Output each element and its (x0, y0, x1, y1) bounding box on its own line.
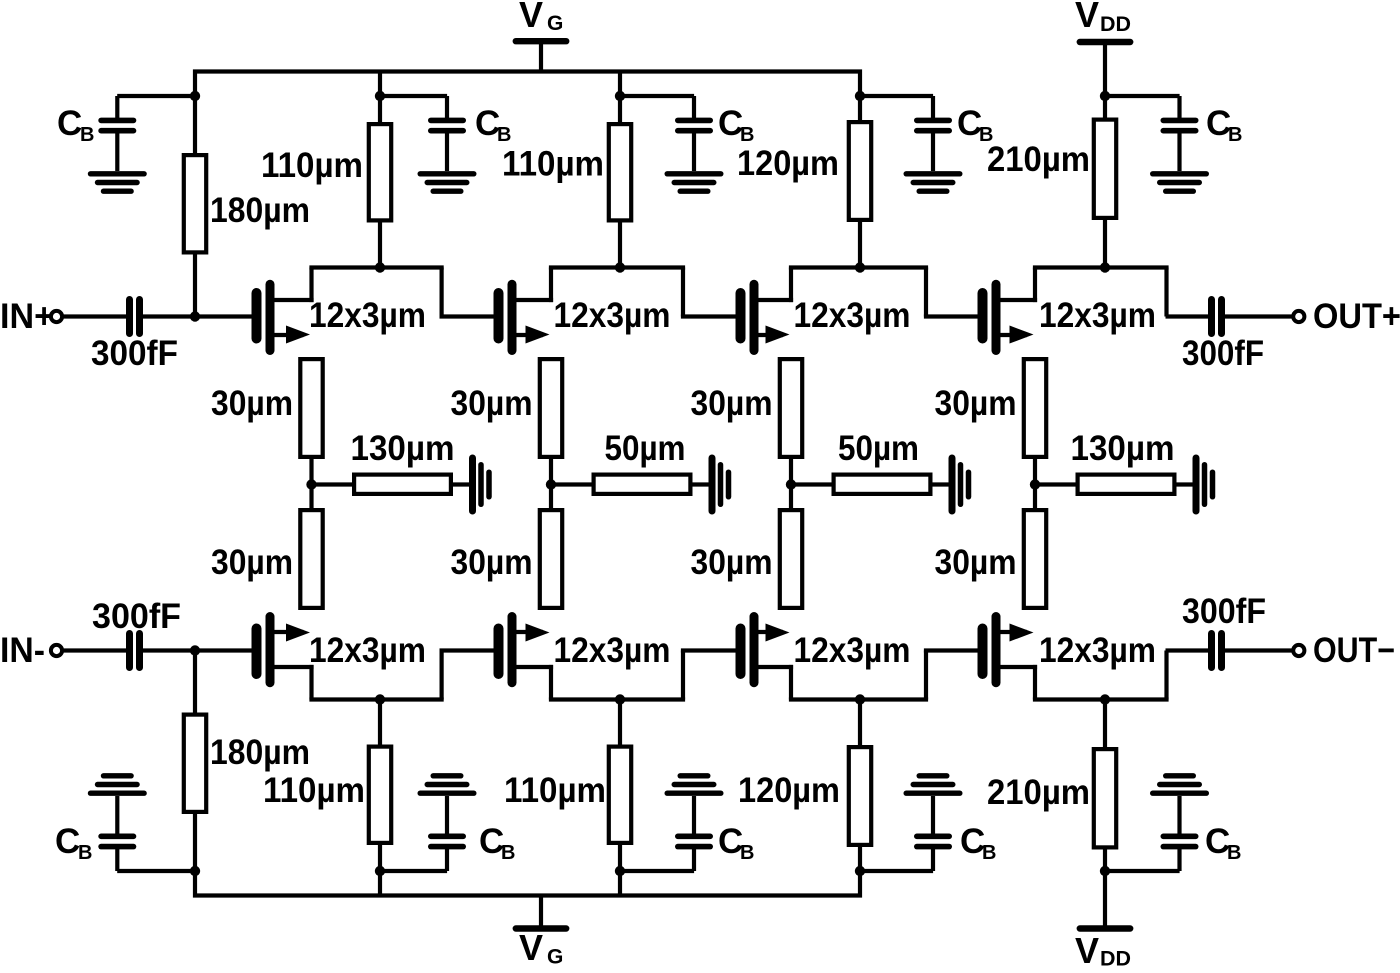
ground CB10 bottom (1153, 776, 1207, 793)
terminal OUT- (1293, 645, 1304, 656)
wire stage1 to M2 gate (440, 314, 494, 318)
wire stage2 to M7 gate (681, 648, 736, 652)
svg-text:B: B (1228, 124, 1242, 146)
wire node to M1 gate (195, 314, 252, 318)
resistor RG1 top 180µm (184, 155, 206, 252)
node IN- bias (190, 645, 200, 655)
ground CB8 bottom (667, 776, 721, 793)
wire RS4a to node (1033, 458, 1037, 509)
label RG1 top 180um (210, 191, 310, 230)
wire C3 to node (143, 648, 195, 652)
wire col2 bottom resistor to drain bus (378, 700, 382, 746)
label RG3 top 110um (502, 145, 604, 184)
wire M1 drain up (309, 268, 313, 303)
svg-text:B: B (1227, 842, 1241, 864)
wire col5 bottom resistor to drain bus (1103, 700, 1107, 749)
wire mid node to RM3 (791, 482, 832, 486)
svg-text:30µm: 30µm (691, 384, 773, 423)
resistor RG2 top 110µm (369, 124, 391, 220)
capacitor C3 300fF (130, 634, 140, 668)
svg-text:30µm: 30µm (211, 543, 293, 582)
svg-text:B: B (740, 124, 754, 146)
svg-text:G: G (547, 946, 563, 969)
wire M3 drain up (789, 268, 793, 303)
transistor M1 12x3um (257, 284, 314, 350)
wire rail stub col2 bottom (378, 871, 382, 896)
svg-text:12x3µm: 12x3µm (794, 296, 911, 335)
node source mid 4 (1030, 479, 1040, 489)
svg-text:210µm: 210µm (987, 773, 1090, 812)
wire col1 bottom to resistor (193, 812, 197, 871)
wire col1 top resistor to gate line (193, 254, 197, 317)
node drain bus 2 top (615, 262, 625, 272)
wire IN+ to C1 (62, 314, 127, 318)
label VDD bottom (1075, 930, 1131, 971)
transistor M2 12x3um (499, 284, 554, 350)
label M2 12x3um (554, 296, 671, 335)
svg-text:210µm: 210µm (987, 140, 1090, 179)
label C2 300fF (1182, 334, 1264, 373)
wire M4 drain bus (1033, 265, 1169, 269)
terminal OUT+ (1293, 311, 1304, 322)
wire stage3 to M8 gate (924, 648, 978, 652)
svg-text:B: B (497, 124, 511, 146)
node IN+ bias (190, 311, 200, 321)
label CB9 bottom (960, 822, 996, 864)
resistor RG4 top 120µm (849, 122, 871, 220)
label IN- (0, 631, 45, 670)
resistor RG8 bottom 120µm (849, 747, 871, 845)
svg-text:C: C (55, 822, 80, 861)
wire M2 drain up (549, 268, 553, 303)
svg-text:V: V (519, 0, 543, 35)
node drain bus 4 top (1100, 262, 1110, 272)
node drain bus 1 bottom (375, 694, 385, 704)
wire M6 drain down (549, 665, 553, 700)
wire C2 to OUT+ (1225, 314, 1293, 318)
label RS2a 30um (451, 384, 533, 423)
wire rail stub col2 top (378, 72, 382, 97)
wire drain bus 3 drop (924, 268, 928, 317)
svg-text:G: G (547, 12, 563, 35)
label RS1a 30um (211, 384, 293, 423)
svg-text:300fF: 300fF (91, 334, 178, 373)
svg-text:12x3µm: 12x3µm (309, 296, 426, 335)
svg-text:30µm: 30µm (451, 543, 533, 582)
resistor RS4b 30um (1024, 510, 1046, 608)
svg-text:110µm: 110µm (504, 771, 606, 810)
wire col2 bottom to resistor (378, 843, 382, 871)
label C3 300fF (92, 597, 181, 636)
transistor M5 12x3um (257, 617, 314, 683)
wire to C4 out (1166, 648, 1209, 652)
resistor RG7 bottom 110µm (609, 747, 631, 843)
svg-text:B: B (982, 842, 996, 864)
node col3 top (615, 91, 625, 101)
node source mid 2 (546, 479, 556, 489)
svg-text:300fF: 300fF (1182, 592, 1266, 631)
resistor RG6 bottom 110µm (369, 747, 391, 843)
transistor M7 12x3um (741, 617, 794, 683)
wire col2 top resistor to drain bus (378, 222, 382, 268)
label CB5 top (1206, 104, 1242, 146)
node col2 bottom (375, 866, 385, 876)
label M7 12x3um (794, 631, 911, 670)
svg-text:50µm: 50µm (838, 429, 919, 468)
wire col3 top resistor to drain bus (618, 222, 622, 268)
power VDD top supply bar (1080, 42, 1130, 96)
wire CB10 bottom lead (1105, 869, 1180, 873)
node col5 bottom (1100, 866, 1110, 876)
wire C4 to OUT- (1225, 648, 1293, 652)
wire M6 drain bus (549, 697, 685, 701)
node drain bus 3 bottom (855, 694, 865, 704)
wire IN- to C3 (62, 648, 127, 652)
ground RM4 (1196, 458, 1213, 511)
wire node to M5 gate (195, 648, 252, 652)
capacitor C2 300fF (1212, 300, 1222, 334)
capacitor CB8 bottom (678, 796, 710, 871)
wire col2 top to resistor (378, 96, 382, 124)
wire M8 drain bus (1033, 697, 1169, 701)
resistor RM3 50µm (834, 475, 931, 494)
resistor RS2a 30um (540, 359, 562, 457)
wire col5 top to resistor (1103, 96, 1107, 120)
wire drain bus 3 bottom rise (924, 651, 928, 700)
svg-text:300fF: 300fF (1182, 334, 1264, 373)
ground CB5 top (1153, 174, 1207, 191)
wire CB2 top lead (380, 94, 447, 98)
label M5 12x3um (309, 631, 426, 670)
node source mid 1 (306, 479, 316, 489)
wire drain bus 4 drop (1164, 268, 1168, 317)
ground CB9 bottom (906, 776, 960, 793)
wire M7 drain bus (789, 697, 928, 701)
label RG7 bottom 110um (504, 771, 606, 810)
node drain bus 3 top (855, 262, 865, 272)
capacitor CB7 bottom (431, 796, 463, 871)
capacitor CB5 top (1163, 96, 1195, 171)
label CB8 bottom (718, 822, 754, 864)
wire RM2 to ground (693, 482, 710, 486)
wire CB1 top lead (117, 94, 195, 98)
svg-text:B: B (80, 124, 94, 146)
wire RM4 to ground (1177, 482, 1194, 486)
label VG top (519, 0, 563, 35)
resistor RS1a 30um (300, 359, 322, 457)
svg-text:12x3µm: 12x3µm (1039, 631, 1156, 670)
label M4 12x3um (1039, 296, 1156, 335)
svg-text:130µm: 130µm (1071, 429, 1175, 468)
svg-text:C: C (57, 104, 82, 143)
svg-text:180µm: 180µm (210, 733, 310, 772)
wire M8 drain down (1033, 665, 1037, 700)
wire mid node to RM2 (551, 482, 592, 486)
label OUT- (1313, 631, 1395, 670)
ground CB6 bottom (91, 776, 145, 793)
svg-text:12x3µm: 12x3µm (554, 631, 671, 670)
node col2 top (375, 91, 385, 101)
svg-text:110µm: 110µm (263, 771, 365, 810)
wire RM1 to ground (453, 482, 470, 486)
capacitor CB10 bottom (1163, 796, 1195, 871)
resistor RD top 210µm (1094, 120, 1116, 218)
label VDD top (1075, 0, 1131, 36)
wire stage1 to M6 gate (440, 648, 494, 652)
label RM3 50µm (838, 429, 919, 468)
wire CB4 top lead (860, 94, 933, 98)
label RG5 bottom 180um (210, 733, 310, 772)
label CB6 bottom (55, 822, 92, 864)
resistor RS3b 30um (780, 510, 802, 608)
wire RS2a to node (549, 458, 553, 509)
transistor M4 12x3um (983, 284, 1038, 350)
wire RS1a to node (309, 458, 313, 509)
label RD2 bottom 210um (987, 773, 1090, 812)
transistor M3 12x3um (741, 284, 794, 350)
svg-text:110µm: 110µm (502, 145, 604, 184)
label RS3b 30um (691, 543, 773, 582)
ground CB1 top (91, 174, 145, 191)
terminal IN- (51, 645, 62, 656)
label OUT+ (1313, 297, 1400, 336)
label RS2b 30um (451, 543, 533, 582)
resistor RS1b 30um (300, 510, 322, 608)
label RD top 210um (987, 140, 1090, 179)
wire stage3 to M4 gate (924, 314, 978, 318)
svg-text:120µm: 120µm (737, 144, 839, 183)
svg-text:V: V (1075, 0, 1099, 35)
svg-text:B: B (740, 842, 754, 864)
node col5 top (1100, 91, 1110, 101)
wire bottom gate-bias rail (195, 871, 860, 896)
capacitor CB6 bottom (101, 796, 133, 871)
label C1 300fF (91, 334, 178, 373)
node col1 bottom (190, 866, 200, 876)
wire col5 bottom to resistor (1103, 848, 1107, 872)
svg-text:OUT+: OUT+ (1313, 297, 1400, 336)
label CB1 top (57, 104, 94, 146)
wire col3 top to resistor (618, 96, 622, 124)
capacitor C1 300fF (130, 300, 140, 334)
svg-text:50µm: 50µm (605, 429, 686, 468)
label RS4b 30um (935, 543, 1017, 582)
power VG bottom supply bar (516, 896, 566, 929)
wire M1 drain bus (309, 265, 443, 269)
label RG8 bottom 120um (738, 771, 840, 810)
power VDD bottom supply bar (1080, 871, 1130, 929)
wire col3 bottom to resistor (618, 843, 622, 871)
svg-text:120µm: 120µm (738, 771, 840, 810)
wire M5 drain down (309, 665, 313, 700)
wire drain bus 2 drop (681, 268, 685, 317)
wire RM3 to ground (933, 482, 950, 486)
label RM4 130µm (1071, 429, 1175, 468)
node drain bus 4 bottom (1100, 694, 1110, 704)
label CB2 top (475, 104, 511, 146)
wire M4 drain up (1033, 268, 1037, 303)
svg-text:180µm: 180µm (210, 191, 310, 230)
node drain bus 1 top (375, 262, 385, 272)
svg-text:B: B (501, 842, 515, 864)
capacitor CB4 top (917, 96, 949, 171)
resistor RS2b 30um (540, 510, 562, 608)
wire col4 top to resistor (858, 96, 862, 122)
wire rail stub col3 bottom (618, 871, 622, 896)
svg-text:OUT−: OUT− (1313, 631, 1395, 670)
svg-text:12x3µm: 12x3µm (554, 296, 671, 335)
wire col1 top to resistor (193, 96, 197, 155)
label C4 300fF (1182, 592, 1266, 631)
label RG6 bottom 110um (263, 771, 365, 810)
wire CB6 bottom lead (117, 869, 195, 873)
svg-text:130µm: 130µm (351, 429, 455, 468)
node drain bus 2 bottom (615, 694, 625, 704)
ground RM1 (473, 458, 490, 511)
wire mid node to RM4 (1035, 482, 1076, 486)
ground RM2 (712, 458, 729, 511)
svg-text:DD: DD (1100, 948, 1131, 969)
ground CB2 top (420, 174, 474, 191)
label CB3 top (718, 104, 754, 146)
ground CB7 bottom (420, 776, 474, 793)
wire CB5 top lead (1105, 94, 1180, 98)
label RM1 130µm (351, 429, 455, 468)
wire col4 bottom resistor to drain bus (858, 700, 862, 747)
svg-text:V: V (519, 927, 543, 968)
svg-text:DD: DD (1100, 13, 1131, 36)
wire drain bus 2 bottom rise (681, 651, 685, 700)
capacitor CB9 bottom (917, 796, 949, 871)
capacitor CB3 top (678, 96, 710, 171)
label CB4 top (957, 104, 993, 146)
label RM2 50µm (605, 429, 686, 468)
resistor RM4 130µm (1078, 475, 1175, 494)
wire mid node to RM1 (312, 482, 353, 486)
svg-text:30µm: 30µm (211, 384, 293, 423)
resistor RS4a 30um (1024, 359, 1046, 457)
svg-text:30µm: 30µm (935, 384, 1017, 423)
label CB10 bottom (1205, 822, 1241, 864)
transistor M8 12x3um (983, 617, 1038, 683)
label M3 12x3um (794, 296, 911, 335)
resistor RM2 50µm (594, 475, 691, 494)
label RG4 top 120um (737, 144, 839, 183)
node col3 bottom (615, 866, 625, 876)
wire drain bus 4 bottom rise (1164, 651, 1168, 700)
wire M2 drain bus (549, 265, 685, 269)
svg-text:30µm: 30µm (935, 543, 1017, 582)
resistor RS3a 30um (780, 359, 802, 457)
wire rail stub col3 top (618, 72, 622, 97)
node source mid 3 (786, 479, 796, 489)
resistor RG5 bottom 180µm (184, 715, 206, 812)
wire to C2 out (1166, 314, 1209, 318)
svg-text:V: V (1075, 930, 1099, 968)
label RS3a 30um (691, 384, 773, 423)
node col4 bottom (855, 866, 865, 876)
wire col3 bottom resistor to drain bus (618, 700, 622, 746)
label IN+ (0, 297, 54, 336)
wire drain bus 1 drop (440, 268, 444, 317)
svg-text:IN-: IN- (0, 631, 45, 670)
node col4 top (855, 91, 865, 101)
label CB7 bottom (479, 822, 515, 864)
wire col1 bottom resistor to gate line (193, 651, 197, 714)
wire C1 to node (143, 314, 195, 318)
ground RM3 (952, 458, 969, 511)
wire col5 top resistor to drain bus (1103, 219, 1107, 268)
svg-text:30µm: 30µm (691, 543, 773, 582)
label VG bottom (519, 927, 563, 969)
svg-text:12x3µm: 12x3µm (309, 631, 426, 670)
wire M5 drain bus (309, 697, 443, 701)
wire top gate-bias rail (195, 72, 860, 97)
wire drain bus 1 bottom rise (440, 651, 444, 700)
wire CB9 bottom lead (860, 869, 933, 873)
ground CB3 top (667, 174, 721, 191)
ground CB4 top (906, 174, 960, 191)
label RG2 top 110um (261, 146, 363, 185)
capacitor C4 300fF (1212, 634, 1222, 668)
terminal IN+ (51, 311, 62, 322)
resistor RG3 top 110µm (609, 124, 631, 220)
wire stage2 to M3 gate (681, 314, 736, 318)
svg-text:12x3µm: 12x3µm (1039, 296, 1156, 335)
svg-text:B: B (78, 842, 92, 864)
wire col4 top resistor to drain bus (858, 221, 862, 268)
power VG top supply bar (516, 41, 566, 71)
label RS4a 30um (935, 384, 1017, 423)
label M8 12x3um (1039, 631, 1156, 670)
label M6 12x3um (554, 631, 671, 670)
svg-text:30µm: 30µm (451, 384, 533, 423)
svg-text:300fF: 300fF (92, 597, 181, 636)
label M1 12x3um (309, 296, 426, 335)
svg-text:110µm: 110µm (261, 146, 363, 185)
capacitor CB2 top (431, 96, 463, 171)
wire M3 drain bus (789, 265, 928, 269)
wire CB8 bottom lead (620, 869, 694, 873)
capacitor CB1 top (101, 96, 133, 171)
wire CB3 top lead (620, 94, 694, 98)
node col1 top (190, 91, 200, 101)
resistor RD2 bottom 210µm (1094, 749, 1116, 847)
wire RS3a to node (789, 458, 793, 509)
resistor RM1 130µm (354, 475, 451, 494)
wire M7 drain down (789, 665, 793, 700)
wire col4 bottom to resistor (858, 845, 862, 871)
wire CB7 bottom lead (380, 869, 447, 873)
transistor M6 12x3um (499, 617, 554, 683)
svg-text:12x3µm: 12x3µm (794, 631, 911, 670)
label RS1b 30um (211, 543, 293, 582)
svg-text:IN+: IN+ (0, 297, 54, 336)
